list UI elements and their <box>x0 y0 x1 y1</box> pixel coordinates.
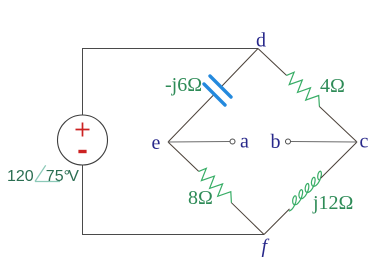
svg-text:d: d <box>256 30 266 52</box>
wire d to capacitor <box>222 49 259 87</box>
svg-text:e: e <box>152 132 161 154</box>
wire bottom horizontal <box>82 234 264 236</box>
wire e to terminal a <box>168 141 230 144</box>
wire capacitor to e <box>168 95 214 143</box>
svg-text:a: a <box>240 131 249 153</box>
capacitor C -j6 plate 1 <box>210 76 231 97</box>
svg-text:120: 120 <box>7 168 34 185</box>
capacitor C -j6 plate 2 <box>204 84 225 105</box>
svg-text:-j6Ω: -j6Ω <box>165 74 202 96</box>
plus sign <box>76 123 90 137</box>
svg-text:f: f <box>262 236 270 258</box>
wire f to inductor <box>264 209 290 235</box>
terminal b open circle <box>286 139 291 144</box>
inductor L j12 coil <box>289 171 322 211</box>
wire terminal b to c <box>291 141 357 144</box>
wire left vertical upper <box>82 49 84 116</box>
resistor R 8ohm zigzag <box>199 168 232 202</box>
wire top horizontal <box>82 48 258 50</box>
voltage source V1 circle <box>58 115 108 165</box>
minus sign <box>78 150 86 153</box>
svg-text:V: V <box>68 168 79 185</box>
wire resistor 8ohm to f <box>231 203 264 235</box>
wire inductor to c <box>321 142 357 178</box>
resistor R 4ohm zigzag <box>287 72 320 106</box>
terminal a open circle <box>230 139 235 144</box>
svg-text:j12Ω: j12Ω <box>312 192 353 214</box>
svg-text:c: c <box>360 131 369 153</box>
wire d to resistor 4ohm <box>258 49 287 76</box>
wire e to resistor 8ohm <box>168 142 199 171</box>
svg-text:b: b <box>271 131 281 153</box>
svg-text:75: 75 <box>46 168 64 185</box>
svg-text:8Ω: 8Ω <box>188 187 213 209</box>
wire left vertical lower <box>82 165 84 235</box>
wire resistor 4ohm to c <box>319 107 357 143</box>
svg-text:4Ω: 4Ω <box>320 75 345 97</box>
